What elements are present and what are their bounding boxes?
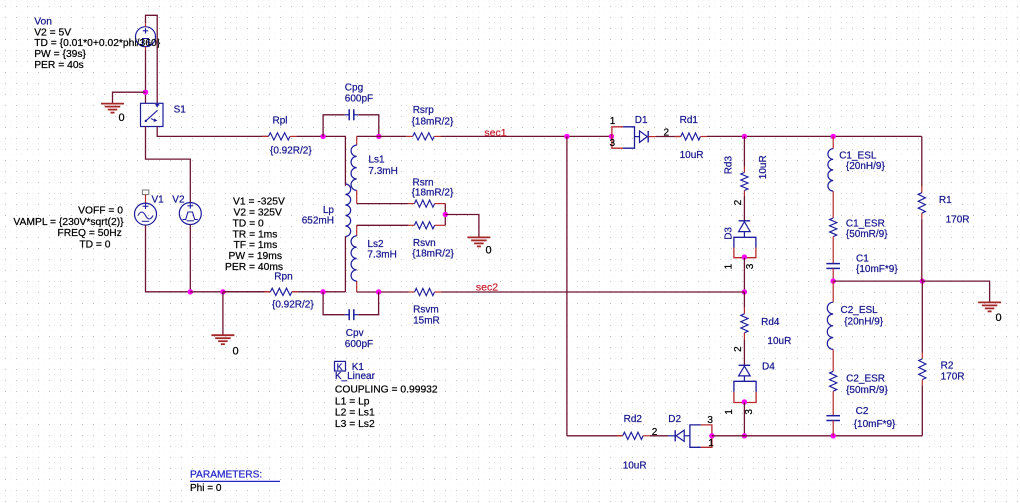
label Ls2 — [367, 239, 384, 250]
pin 2 label (rotated) — [733, 199, 744, 205]
wire Cpg left branch — [323, 115, 345, 137]
svg-text:PER = 40s: PER = 40s — [34, 60, 84, 71]
node junction at D1 pin — [609, 134, 614, 139]
svg-text:{18mR/2}: {18mR/2} — [412, 188, 454, 199]
svg-text:{50mR/9}: {50mR/9} — [846, 229, 888, 240]
svg-text:K_Linear: K_Linear — [335, 371, 376, 382]
socket box D3 — [734, 237, 756, 257]
node junction Cpg right — [376, 134, 381, 139]
svg-text:sec2: sec2 — [476, 281, 498, 293]
wire bottom rail right — [712, 435, 922, 437]
svg-text:C1: C1 — [856, 254, 869, 265]
node junction Cpv right — [376, 289, 381, 294]
svg-text:D4: D4 — [762, 361, 775, 372]
svg-text:D3: D3 — [724, 227, 735, 240]
ground G4 (0) — [978, 302, 1002, 324]
svg-text:1: 1 — [708, 438, 714, 449]
wire Cpg right branch — [358, 115, 379, 137]
svg-text:0: 0 — [233, 346, 239, 358]
wire C1 to mid bus — [832, 268, 834, 281]
value {50mR/9} — [846, 385, 888, 396]
node junction D4 box bottom — [742, 399, 747, 404]
value {0.92R/2} — [272, 300, 314, 311]
parameter Phi = 0 — [190, 483, 222, 494]
svg-text:D2: D2 — [668, 414, 681, 425]
wire to ground G2 — [222, 292, 224, 335]
svg-text:TF = 1ms: TF = 1ms — [234, 240, 278, 251]
value 600pF — [345, 93, 373, 104]
svg-text:{20nH/9}: {20nH/9} — [846, 161, 886, 172]
svg-text:2: 2 — [733, 346, 744, 352]
pin 3 label (rotated) — [744, 409, 755, 415]
value {20nH/9} — [846, 161, 886, 172]
value 10uR — [680, 150, 704, 161]
pin 2 label — [664, 128, 670, 139]
svg-text:3: 3 — [610, 138, 616, 149]
wire mid bus to ground G4 — [922, 281, 989, 302]
pin 3 label (rotated) — [745, 263, 756, 269]
ground G2 (0) — [211, 335, 238, 357]
resistor R1 — [918, 136, 925, 281]
inductor Lp (primary) — [345, 184, 350, 292]
svg-text:Cpg: Cpg — [345, 83, 363, 94]
pin 3 label — [707, 415, 713, 426]
pin 2 label (rotated) — [733, 346, 744, 352]
net label sec2 — [476, 281, 498, 293]
resistor Rpl — [262, 133, 297, 140]
label Lp — [323, 205, 335, 216]
svg-text:{10mF*9}: {10mF*9} — [854, 419, 896, 430]
node junction D2 box right — [709, 433, 714, 438]
label Rsvm — [413, 305, 439, 316]
value {10mF*9} — [854, 419, 896, 430]
svg-text:2: 2 — [733, 199, 744, 205]
wire mid right bus — [833, 280, 922, 282]
svg-text:PARAMETERS:: PARAMETERS: — [190, 470, 262, 481]
wire Rpl to Lp top — [297, 136, 346, 184]
svg-text:COUPLING = 0.99932: COUPLING = 0.99932 — [335, 384, 438, 395]
wire sec2 rail — [441, 291, 744, 293]
label C2_ESL — [841, 305, 879, 316]
svg-text:652mH: 652mH — [302, 216, 334, 227]
svg-text:170R: 170R — [941, 372, 965, 383]
inductor Ls1 (secondary 1) — [351, 136, 357, 203]
wire sec1 vertical drop — [566, 136, 568, 435]
voltage source V2 (VPULSE) — [179, 203, 201, 225]
diode D1 with socket box — [612, 127, 656, 148]
svg-text:sec1: sec1 — [484, 127, 506, 139]
wire Ls1 bottom to Rsrn — [356, 135, 358, 137]
pin 1 label (rotated) — [724, 263, 735, 269]
svg-text:{0.92R/2}: {0.92R/2} — [270, 145, 312, 156]
value 170R — [941, 372, 965, 383]
value {18mR/2} — [412, 117, 454, 128]
label V1 — [152, 195, 165, 206]
capacitor Cpg — [345, 109, 358, 120]
svg-text:V2 = 5V: V2 = 5V — [34, 27, 71, 38]
value 7.3mH — [368, 166, 397, 177]
svg-text:V2 = 325V: V2 = 325V — [234, 208, 283, 219]
value {18mR/2} — [412, 249, 454, 260]
label D4 — [762, 361, 775, 372]
switch S1 — [141, 103, 164, 126]
node junction sec1 drop — [564, 134, 569, 139]
pin 1 label — [610, 116, 616, 127]
net label sec1 — [484, 127, 506, 139]
value 652mH — [302, 216, 334, 227]
coupling symbol K1 box — [335, 361, 346, 371]
pin 2 label — [652, 427, 658, 438]
ground G1 (0) — [101, 104, 125, 124]
svg-text:{18mR/2}: {18mR/2} — [412, 249, 454, 260]
label Rd4 — [761, 317, 780, 328]
resistor R2 — [919, 281, 926, 436]
wire V2- to bottom primary bus — [189, 225, 191, 292]
svg-text:L1 = Lp: L1 = Lp — [335, 396, 370, 407]
node junction Cpv left — [320, 289, 325, 294]
svg-text:FREQ = 50Hz: FREQ = 50Hz — [57, 228, 121, 239]
svg-text:3: 3 — [744, 409, 755, 415]
label Rd2 — [624, 414, 643, 425]
node junction D3 box bottom — [742, 254, 747, 259]
svg-text:600pF: 600pF — [345, 339, 373, 350]
node junction Rd3 branch — [742, 134, 747, 139]
label C1_ESL — [839, 151, 877, 162]
svg-text:{0.92R/2}: {0.92R/2} — [272, 300, 314, 311]
svg-text:3: 3 — [745, 263, 756, 269]
label Rpn — [274, 272, 292, 283]
wire C1_ESR to C1 — [832, 237, 834, 264]
svg-text:1: 1 — [724, 263, 735, 269]
svg-text:L2 = Ls1: L2 = Ls1 — [335, 408, 375, 419]
socket box D4 — [734, 381, 756, 402]
svg-text:{10mF*9}: {10mF*9} — [856, 264, 898, 275]
wire bottom rail left — [567, 435, 623, 437]
node junction C2 on bottom bus — [831, 433, 836, 438]
voltage source Von (VPULSE) — [136, 23, 156, 50]
wire C2_ESR to C2 — [832, 391, 834, 416]
label Ls1 — [368, 155, 385, 166]
svg-text:C1_ESL: C1_ESL — [839, 151, 877, 162]
node junction Von- / ground — [143, 90, 148, 95]
label C2 — [856, 406, 869, 417]
pin 1 label — [708, 438, 714, 449]
label Rpl — [273, 116, 288, 127]
svg-text:Cpv: Cpv — [346, 328, 364, 339]
svg-text:Ls1: Ls1 — [368, 155, 385, 166]
label V2 — [172, 195, 185, 206]
capacitor Cpv — [345, 309, 358, 320]
svg-text:C2: C2 — [856, 406, 869, 417]
value 7.3mH — [367, 250, 396, 261]
node junction C1 bottom — [831, 278, 836, 283]
svg-text:0: 0 — [486, 244, 492, 256]
svg-text:Rd4: Rd4 — [761, 317, 780, 328]
svg-text:D1: D1 — [635, 115, 648, 126]
wire sec1 rail — [441, 135, 612, 137]
resistor Rsrp — [357, 133, 441, 140]
svg-text:V1 = -325V: V1 = -325V — [233, 197, 285, 208]
node junction C1 branch — [831, 134, 836, 139]
label D3 (rotated) — [724, 227, 735, 240]
label K1 — [352, 362, 365, 373]
label Rd1 — [680, 115, 699, 126]
resistor Rd3 — [741, 136, 748, 196]
svg-text:0: 0 — [996, 312, 1002, 324]
wire bottom primary bus — [190, 291, 270, 293]
wire Cpv left branch — [323, 292, 345, 315]
node junction sec2 / Rd3-Rd4 — [742, 289, 747, 294]
resistor Rd1 — [675, 133, 707, 140]
svg-text:15mR: 15mR — [413, 315, 440, 326]
label C1_ESR — [846, 219, 885, 230]
svg-text:Von: Von — [34, 17, 52, 28]
svg-text:S1: S1 — [174, 104, 187, 115]
svg-text:Rsvm: Rsvm — [413, 305, 439, 316]
svg-text:{18mR/2}: {18mR/2} — [412, 117, 454, 128]
wire D3 to sec2 bus — [743, 258, 745, 292]
wire C2 to bottom bus — [832, 421, 834, 436]
V1 parameter text block — [13, 206, 124, 251]
svg-text:Rpn: Rpn — [274, 272, 292, 283]
terminal marker on V1+ — [142, 190, 148, 195]
svg-text:TD = 0: TD = 0 — [79, 239, 110, 250]
wire D4 to bottom bus — [743, 403, 745, 436]
label Von — [34, 17, 52, 28]
resistor Rsvn — [357, 222, 446, 229]
label Cpg — [345, 83, 363, 94]
svg-text:600pF: 600pF — [345, 93, 373, 104]
resistor C2_ESR — [830, 371, 837, 391]
svg-text:10uR: 10uR — [767, 336, 791, 347]
wire D1 to Rd1 — [656, 136, 681, 138]
value 15mR — [413, 315, 440, 326]
label K_Linear — [335, 371, 376, 382]
svg-text:TD = 0: TD = 0 — [233, 218, 264, 229]
svg-text:7.3mH: 7.3mH — [368, 166, 397, 177]
node junction R1/R2 — [920, 278, 925, 283]
svg-text:V1: V1 — [152, 195, 165, 206]
svg-text:1: 1 — [610, 116, 616, 127]
wire center tap to ground G3 — [445, 215, 479, 238]
svg-text:Rd2: Rd2 — [624, 414, 643, 425]
resistor Rsrn — [357, 200, 446, 207]
label Rsrn — [413, 177, 434, 188]
parameters block title — [190, 470, 280, 482]
svg-text:7.3mH: 7.3mH — [367, 250, 396, 261]
resistor Rd2 — [617, 432, 650, 439]
wire top right bus — [707, 135, 922, 137]
value {20nH/9} — [844, 316, 884, 327]
label D1 — [635, 115, 648, 126]
value 10uR — [767, 336, 791, 347]
svg-text:TD = {0.01*0+0.02*phi/360}: TD = {0.01*0+0.02*phi/360} — [34, 38, 161, 49]
svg-text:Rpl: Rpl — [273, 116, 288, 127]
wire to ground G1 — [113, 92, 146, 103]
diode D3 — [739, 196, 751, 237]
svg-text:3: 3 — [707, 415, 713, 426]
label C1 — [856, 254, 869, 265]
V1/V2 pulse parameter text block — [225, 197, 285, 273]
svg-text:PW = 19ms: PW = 19ms — [229, 251, 283, 262]
label Rsvn — [413, 238, 436, 249]
svg-text:VOFF = 0: VOFF = 0 — [78, 206, 123, 217]
node junction Cpg left — [320, 134, 325, 139]
wire Cpv right branch — [358, 292, 378, 315]
value 10uR (rotated) — [758, 155, 769, 179]
wire S1 right pin to primary bus — [157, 127, 268, 137]
svg-text:V2: V2 — [172, 195, 185, 206]
ground G3 (0) — [467, 237, 491, 256]
svg-text:10uR: 10uR — [623, 461, 647, 472]
value {10mF*9} — [856, 264, 898, 275]
resistor Rd4 — [741, 292, 748, 340]
svg-text:Rsvn: Rsvn — [413, 238, 436, 249]
inductor C1_ESL — [828, 136, 833, 218]
wire Von+ to switch S1 top loop — [146, 15, 158, 103]
socket box D2 — [690, 425, 712, 447]
value 10uR — [623, 461, 647, 472]
inductor Ls2 (secondary 2) — [351, 225, 357, 292]
resistor Rsvm — [357, 288, 441, 295]
pin 3 label — [610, 138, 616, 149]
wire center tap vertical — [444, 204, 446, 226]
Von parameter text block — [34, 27, 161, 71]
label Cpv — [346, 328, 364, 339]
svg-text:L3 = Ls2: L3 = Ls2 — [335, 419, 375, 430]
svg-text:C2_ESR: C2_ESR — [846, 374, 885, 385]
node junction V2- on bus — [188, 289, 193, 294]
svg-text:R2: R2 — [941, 360, 954, 371]
value {50mR/9} — [846, 229, 888, 240]
svg-text:C2_ESL: C2_ESL — [841, 305, 879, 316]
label D2 — [668, 414, 681, 425]
value {18mR/2} — [412, 188, 454, 199]
svg-text:0: 0 — [119, 112, 125, 124]
wire S1 left pin down to V2 — [146, 127, 191, 203]
svg-text:Ls2: Ls2 — [367, 239, 384, 250]
label R2 — [941, 360, 954, 371]
label C2_ESR — [846, 374, 885, 385]
svg-text:PW = {39s}: PW = {39s} — [34, 49, 86, 60]
svg-text:Rsrp: Rsrp — [413, 105, 435, 116]
node junction center tap — [443, 212, 448, 217]
value {0.92R/2} — [270, 145, 312, 156]
diode D4 — [739, 340, 751, 381]
svg-text:Phi = 0: Phi = 0 — [190, 483, 222, 494]
svg-text:Rd1: Rd1 — [680, 115, 699, 126]
label Rd3 (rotated) — [724, 156, 735, 175]
svg-text:170R: 170R — [946, 215, 970, 226]
capacitor C1 — [826, 264, 840, 269]
value 600pF — [345, 339, 373, 350]
resistor Rpn — [223, 288, 298, 295]
inductor C2_ESL — [827, 281, 833, 371]
node junction ground branch — [220, 289, 225, 294]
value 170R — [946, 215, 970, 226]
pin 1 label (rotated) — [724, 409, 735, 415]
label R1 — [939, 195, 952, 206]
svg-text:TR = 1ms: TR = 1ms — [233, 229, 278, 240]
svg-text:1: 1 — [724, 409, 735, 415]
svg-text:10uR: 10uR — [680, 150, 704, 161]
wire bottom primary bus to Lp — [292, 291, 346, 293]
diode D2 — [650, 430, 690, 441]
capacitor C2 — [826, 416, 840, 421]
svg-text:R1: R1 — [939, 195, 952, 206]
svg-text:Rd3: Rd3 — [724, 156, 735, 175]
svg-text:VAMPL = {230V*sqrt(2)}: VAMPL = {230V*sqrt(2)} — [13, 217, 124, 228]
wire Von- down to ground junction — [145, 50, 147, 103]
pin stub V1+ — [145, 195, 147, 204]
svg-text:{50mR/9}: {50mR/9} — [846, 385, 888, 396]
resistor C1_ESR — [830, 218, 837, 237]
voltage source V1 (VSIN) — [135, 203, 157, 225]
label S1 — [174, 104, 187, 115]
svg-text:{20nH/9}: {20nH/9} — [844, 316, 884, 327]
K1 parameter text block — [335, 384, 438, 430]
wire V1- to bottom primary bus — [146, 225, 191, 292]
label Rsrp — [413, 105, 435, 116]
node junction D4 on bottom bus — [742, 433, 747, 438]
svg-text:10uR: 10uR — [758, 155, 769, 179]
